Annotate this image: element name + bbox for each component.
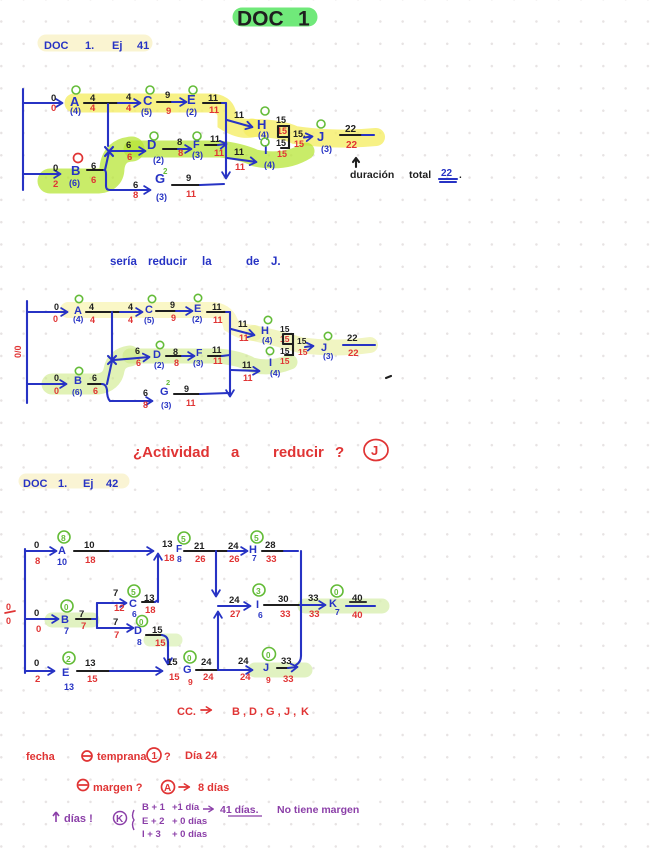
- d2 label 15/15 after I: [280, 346, 290, 366]
- d3 label 0/0 before B: [34, 608, 41, 635]
- d1 node A: [70, 86, 81, 116]
- svg-text:15: 15: [276, 115, 286, 125]
- svg-text:8 días: 8 días: [198, 782, 229, 794]
- highlight header Ej41 pale yellow: [46, 35, 144, 52]
- d2 wire C to E: [156, 310, 192, 312]
- d2 wire corner to G: [110, 400, 152, 402]
- d3 wire E to junction: [77, 670, 162, 672]
- d1 arrow junction to I: [227, 158, 256, 162]
- svg-text:8: 8: [35, 556, 40, 567]
- d1 arrow start to B: [23, 173, 60, 175]
- svg-text:33: 33: [280, 609, 291, 620]
- svg-text:11: 11: [209, 105, 220, 116]
- highlight d1 H-J yellow: [252, 128, 376, 139]
- d2 label 6/6 before D: [135, 346, 141, 368]
- d1 node E: [186, 86, 197, 117]
- svg-text:(2): (2): [154, 360, 165, 370]
- svg-text:40: 40: [352, 610, 363, 621]
- svg-text:E + 2+ 0 días: E + 2+ 0 días: [142, 816, 207, 827]
- highlight d1 DF row green: [132, 149, 306, 160]
- svg-text:7: 7: [64, 626, 69, 636]
- svg-text:8: 8: [143, 400, 148, 410]
- highlight d3 IK row green: [305, 599, 382, 614]
- svg-text:0: 0: [334, 588, 339, 597]
- svg-text:11: 11: [210, 134, 221, 145]
- d1 start bar: [22, 89, 24, 190]
- svg-text:15: 15: [155, 638, 166, 649]
- d1 label 11/11 after F: [210, 134, 225, 159]
- text CC list: [177, 706, 309, 718]
- svg-text:15: 15: [87, 674, 98, 685]
- svg-text:27: 27: [230, 609, 241, 620]
- d3 label 24/27 before I: [229, 595, 241, 620]
- svg-text:5: 5: [131, 587, 136, 597]
- d3 wire C up: [142, 600, 158, 602]
- svg-text:E: E: [62, 667, 69, 679]
- d1 node F: [192, 132, 203, 160]
- d3 label 15/15 before G: [167, 657, 180, 683]
- d3 arrow fork to D: [97, 627, 133, 629]
- svg-text:22: 22: [441, 168, 453, 179]
- d2 end line: [343, 344, 375, 346]
- svg-text:(3): (3): [193, 358, 204, 368]
- highlight d3 B start green: [52, 613, 92, 628]
- svg-text:J: J: [317, 129, 324, 144]
- highlight d3 J green: [255, 663, 305, 678]
- d1 wire F to junction: [205, 144, 226, 145]
- d3 wire G to J: [196, 669, 252, 671]
- svg-text:.: .: [459, 170, 462, 181]
- svg-text:6: 6: [127, 152, 132, 163]
- d2 wire F to junction: [208, 355, 230, 356]
- svg-text:6: 6: [92, 373, 97, 383]
- d1 node G: [155, 167, 168, 202]
- d3 node G: [183, 651, 196, 687]
- d2 arrow X to D: [114, 357, 149, 360]
- d3 label 33/33 before K: [308, 593, 320, 620]
- d2 arrow to J: [305, 346, 313, 347]
- d3 label 24/26 before H: [228, 541, 240, 565]
- d2 label 9/11 after G: [184, 384, 196, 408]
- svg-text:15: 15: [276, 138, 286, 148]
- d2 label 9/9: [170, 300, 176, 323]
- d1 label 4/4 before C: [126, 92, 132, 114]
- d2 label 0/0 before B: [54, 373, 59, 396]
- d3 node A: [57, 531, 70, 567]
- svg-text:4: 4: [128, 315, 133, 325]
- d2 wire corner up to X: [107, 361, 112, 384]
- highlight d2 B green: [52, 356, 130, 384]
- svg-text:(2): (2): [186, 107, 197, 117]
- svg-text:10: 10: [57, 557, 67, 567]
- d2 start bar: [26, 301, 28, 403]
- svg-text:6: 6: [126, 140, 131, 151]
- d1 end line: [340, 134, 374, 136]
- d2 label 11/11 after F: [212, 345, 223, 366]
- d3 wire A to junction: [74, 550, 153, 552]
- d3 wire B to fork: [76, 618, 97, 620]
- svg-text:9: 9: [165, 90, 170, 101]
- d3 label 7/12 before C: [113, 588, 125, 614]
- d3 label 13/18 before F: [162, 539, 175, 564]
- svg-text:24: 24: [228, 541, 239, 552]
- svg-text:8: 8: [133, 190, 138, 201]
- d1 label 0/2 before B: [53, 163, 58, 190]
- d1 label 6/6 after B: [91, 161, 96, 186]
- svg-text:G: G: [183, 664, 192, 676]
- svg-text:0: 0: [6, 602, 11, 612]
- d2 arrow junction to I: [231, 370, 259, 371]
- d2 label 0/0 before A: [53, 302, 59, 324]
- d2 label 15/15 before J: [297, 336, 308, 357]
- d3 label 30/33 after I: [278, 594, 291, 620]
- svg-text:13: 13: [64, 682, 74, 692]
- svg-text:margen ?: margen ?: [93, 782, 143, 794]
- d3 arrow fork to C: [97, 602, 126, 604]
- svg-text:seríareducirladeJ.: seríareducirladeJ.: [110, 256, 281, 268]
- svg-text:B: B: [74, 375, 82, 387]
- svg-text:0: 0: [54, 373, 59, 383]
- svg-text:B + 1+1 día: B + 1+1 día: [142, 802, 200, 813]
- svg-text:24: 24: [229, 595, 240, 606]
- svg-text:(2): (2): [153, 155, 164, 165]
- d3 wire J to corner: [277, 667, 297, 668]
- d1 wire G to junction: [172, 184, 224, 185]
- d3 label 40/40 end: [352, 593, 363, 621]
- d3 label 10/18: [84, 540, 96, 566]
- d1 node H: [257, 107, 269, 140]
- header DOC 1 Ej 42 highlight: [26, 474, 122, 489]
- svg-text:33: 33: [283, 674, 294, 685]
- svg-text:DOC: DOC: [237, 8, 284, 31]
- d1 label 11/11 after E: [208, 93, 220, 116]
- svg-text:11: 11: [234, 147, 245, 158]
- svg-text:3: 3: [256, 586, 261, 596]
- svg-text:18: 18: [145, 605, 156, 616]
- svg-text:J: J: [263, 662, 269, 674]
- svg-text:15: 15: [280, 346, 290, 356]
- d2 wire B corner: [88, 384, 110, 401]
- d2 wire E to junction: [207, 311, 230, 313]
- svg-text:13: 13: [85, 658, 96, 669]
- svg-text:33: 33: [281, 656, 292, 667]
- svg-text:6: 6: [93, 386, 98, 396]
- svg-text:0: 0: [53, 163, 58, 174]
- svg-text:4: 4: [89, 302, 94, 312]
- svg-text:10: 10: [84, 540, 95, 551]
- svg-text:12: 12: [114, 603, 125, 614]
- svg-text:6: 6: [135, 346, 140, 356]
- svg-text:I + 3+ 0 días: I + 3+ 0 días: [142, 829, 207, 840]
- svg-text:0: 0: [34, 608, 39, 619]
- d2 arrow start to B: [27, 383, 66, 385]
- svg-text:7: 7: [114, 630, 119, 641]
- d1 arrow up duracion: [353, 158, 359, 167]
- svg-text:18: 18: [164, 553, 175, 564]
- svg-text:15: 15: [294, 139, 304, 149]
- text margen line: [78, 780, 230, 795]
- d2 label 4/4 after A: [89, 302, 95, 325]
- svg-text:0: 0: [6, 616, 11, 626]
- d1 arrow start to A: [23, 102, 62, 104]
- d1 label 11 to H: [234, 110, 245, 121]
- d3 label 13/18 after C: [144, 593, 156, 616]
- svg-text:(4): (4): [262, 335, 273, 345]
- d3 node J: [263, 648, 276, 686]
- d1 wire C to E: [157, 101, 186, 103]
- svg-text:8: 8: [61, 533, 66, 543]
- svg-text:7: 7: [252, 553, 257, 563]
- svg-text:?: ?: [164, 751, 171, 763]
- d1 bracket HI: [278, 126, 289, 148]
- d1 label 11/11 to I: [234, 147, 246, 173]
- d2 label 0/0 rotated: [13, 345, 23, 358]
- svg-text:(4): (4): [70, 106, 81, 116]
- svg-text:9: 9: [188, 677, 193, 687]
- d1 label 0/0 before A: [51, 93, 56, 114]
- d2 node G: [160, 378, 172, 410]
- d2 bracket HI: [283, 334, 293, 355]
- d3 node H: [249, 531, 263, 563]
- d1 junction bar mid (A row down to X): [107, 104, 109, 146]
- svg-text:22: 22: [347, 333, 358, 344]
- d1 arrow junction to H: [227, 120, 252, 127]
- svg-text:J: J: [371, 443, 378, 458]
- svg-text:C: C: [143, 93, 153, 108]
- svg-text:41 días.: 41 días.: [220, 804, 259, 816]
- title DOC 1: [237, 8, 310, 31]
- d1 arrow X to D: [111, 150, 145, 152]
- d3 label 7/7 before D: [113, 617, 119, 641]
- svg-text:24: 24: [201, 657, 212, 668]
- d2 label 11/11 to H: [238, 319, 249, 343]
- svg-text:21: 21: [194, 541, 205, 552]
- highlight d2 HJ pale yellow-green: [254, 333, 370, 348]
- svg-text:4: 4: [126, 103, 132, 114]
- svg-text:15: 15: [297, 336, 307, 346]
- d1 label 8/8: [177, 137, 183, 159]
- svg-text:(6): (6): [72, 387, 83, 397]
- highlight d2 DF green: [130, 356, 290, 367]
- stray pen mark: [386, 376, 391, 378]
- header DOC 1. Ej 41: [44, 40, 149, 52]
- svg-text:30: 30: [278, 594, 289, 605]
- svg-text:duracióntotal: duracióntotal: [350, 169, 431, 181]
- d1 node I: [261, 138, 275, 170]
- svg-text:1: 1: [152, 751, 158, 762]
- svg-text:15: 15: [298, 347, 308, 357]
- svg-text:11: 11: [235, 162, 246, 173]
- svg-text:(3): (3): [161, 400, 172, 410]
- svg-text:0: 0: [34, 658, 39, 669]
- d1 node J: [317, 120, 332, 154]
- svg-text:11: 11: [234, 110, 245, 121]
- svg-text:24: 24: [240, 672, 251, 683]
- d2 node B: [72, 367, 83, 397]
- svg-text:9: 9: [184, 384, 189, 394]
- svg-text:15: 15: [280, 324, 290, 334]
- svg-text:7: 7: [113, 617, 118, 628]
- d2 wire G to junction: [174, 393, 229, 394]
- svg-text:8: 8: [174, 358, 179, 368]
- d2 node E: [192, 294, 203, 324]
- d1 label 22/22 end: [345, 124, 358, 151]
- svg-text:4: 4: [128, 302, 133, 312]
- svg-text:2: 2: [166, 378, 170, 387]
- svg-text:¿Actividadareducir?: ¿Actividadareducir?: [133, 444, 344, 461]
- text actividad a reducir: [133, 444, 344, 461]
- svg-text:0: 0: [36, 624, 41, 635]
- svg-text:9: 9: [171, 313, 176, 323]
- svg-text:5: 5: [254, 533, 259, 543]
- svg-text:33: 33: [309, 609, 320, 620]
- d1 label 9/11 after G: [186, 173, 197, 200]
- d3 label 21/26 after F: [194, 541, 206, 565]
- d1 label 15/15 after I: [276, 138, 287, 159]
- svg-text:0: 0: [54, 386, 59, 396]
- highlight title green pill: [242, 8, 308, 27]
- svg-text:8: 8: [177, 137, 182, 148]
- d1 wire A to C: [84, 102, 140, 104]
- svg-text:2: 2: [35, 674, 40, 685]
- highlight d2 top row pale yellow: [68, 310, 254, 333]
- svg-text:33: 33: [308, 593, 319, 604]
- svg-text:6: 6: [258, 610, 263, 620]
- svg-text:15: 15: [167, 657, 178, 668]
- d2 label 11/11 after E: [212, 302, 223, 325]
- d3 label 24/24 after G: [201, 657, 214, 683]
- d3 node C: [128, 585, 140, 619]
- svg-text:11: 11: [243, 373, 253, 383]
- d3 wire D to corner down: [146, 635, 168, 655]
- d2 node C: [144, 295, 156, 325]
- svg-text:6: 6: [136, 358, 141, 368]
- svg-text:15: 15: [169, 672, 180, 683]
- svg-text:8: 8: [173, 347, 178, 357]
- d1 arrow to J: [304, 137, 312, 138]
- svg-text:33: 33: [266, 554, 277, 565]
- svg-text:15: 15: [277, 149, 287, 159]
- d3 wire I to K: [264, 604, 325, 606]
- svg-text:(5): (5): [141, 107, 152, 117]
- d3 node I: [253, 584, 265, 620]
- svg-text:22: 22: [345, 124, 357, 135]
- d2 node D: [153, 341, 165, 370]
- d1 wire B corner: [87, 170, 110, 190]
- text dias purple line: [53, 802, 359, 840]
- d3 arrow junction to I: [218, 605, 250, 607]
- svg-text:(4): (4): [264, 160, 275, 170]
- d1 junction bar right: [225, 103, 227, 178]
- svg-text:fecha: fecha: [26, 751, 56, 763]
- svg-text:1: 1: [298, 8, 310, 31]
- svg-text:11: 11: [213, 315, 223, 325]
- d1 X junction: [105, 147, 113, 156]
- svg-text:0: 0: [139, 618, 144, 627]
- svg-text:26: 26: [195, 554, 206, 565]
- svg-text:9: 9: [170, 300, 175, 310]
- svg-text:11: 11: [238, 319, 248, 329]
- svg-text:7: 7: [113, 588, 118, 599]
- svg-text:días !: días !: [64, 813, 93, 825]
- svg-text:9: 9: [186, 173, 191, 184]
- d2 node F: [193, 347, 204, 368]
- d3 label 0/0 rotated red: [5, 602, 15, 626]
- svg-text:(2): (2): [192, 314, 203, 324]
- d3 node B: [61, 600, 73, 636]
- text seria reducir la de J: [110, 256, 281, 268]
- svg-text:4: 4: [126, 92, 132, 103]
- svg-text:0: 0: [266, 651, 271, 660]
- svg-text:26: 26: [229, 554, 240, 565]
- d2 arrow start to A: [27, 311, 67, 313]
- svg-text:Día 24: Día 24: [185, 750, 218, 762]
- svg-text:11: 11: [212, 345, 222, 355]
- d2 label 6/8 before G: [143, 388, 148, 410]
- svg-text:A: A: [164, 783, 171, 794]
- svg-text:0: 0: [54, 302, 59, 312]
- svg-text:8: 8: [178, 148, 183, 159]
- d3 label 7/7 after B: [79, 609, 86, 632]
- highlight d1 top row yellow: [74, 103, 252, 128]
- svg-text:22: 22: [348, 348, 359, 359]
- svg-text:(3): (3): [192, 150, 203, 160]
- svg-text:11: 11: [186, 398, 196, 408]
- d3 wire H to corner: [262, 551, 301, 665]
- svg-text:B: B: [71, 163, 80, 178]
- d1 node D: [147, 132, 164, 165]
- d3 down arrow to E row: [167, 655, 169, 664]
- svg-text:2: 2: [66, 654, 71, 664]
- d2 junction bar right: [229, 312, 231, 396]
- circled J: [364, 440, 388, 461]
- svg-text:CC.B ,D ,G ,J ,K: CC.B ,D ,G ,J ,K: [177, 706, 309, 718]
- d2 label 4/4 before C: [128, 302, 133, 325]
- svg-text:15: 15: [280, 334, 290, 344]
- d3 label 0/8 before A: [34, 540, 40, 567]
- d2 label 11/11 to I: [242, 360, 253, 383]
- d3 I row from junction: [215, 551, 217, 596]
- d2 node A: [73, 295, 84, 324]
- svg-text:8: 8: [177, 554, 182, 564]
- header DOC 1. Ej 42: [23, 478, 118, 490]
- d3 label 24/24 before J: [238, 656, 251, 683]
- d2 node J: [321, 332, 334, 361]
- d1 label 9/9: [165, 90, 171, 117]
- svg-text:temprana: temprana: [97, 751, 147, 763]
- svg-text:28: 28: [265, 540, 276, 551]
- svg-text:(3): (3): [321, 144, 332, 154]
- d1 wire D to F: [163, 148, 191, 150]
- d3 label 0/2 before E: [34, 658, 40, 685]
- svg-text:7: 7: [335, 607, 340, 617]
- svg-text:(5): (5): [144, 315, 155, 325]
- highlight d3 D15 green: [150, 634, 176, 647]
- svg-text:(3): (3): [156, 192, 167, 202]
- svg-text:0: 0: [64, 603, 69, 612]
- d2 arrow junction to H: [231, 329, 254, 335]
- svg-text:13: 13: [162, 539, 173, 550]
- svg-text:G: G: [160, 386, 169, 398]
- d3 label 33/33 after J: [281, 656, 294, 685]
- svg-text:7: 7: [81, 621, 86, 632]
- svg-text:No tiene margen: No tiene margen: [277, 804, 359, 816]
- d3 start bar: [24, 549, 26, 673]
- d3 label 28/33 after H: [265, 540, 277, 565]
- svg-text:15: 15: [280, 356, 290, 366]
- svg-text:6: 6: [91, 175, 96, 186]
- svg-text:B: B: [61, 614, 69, 626]
